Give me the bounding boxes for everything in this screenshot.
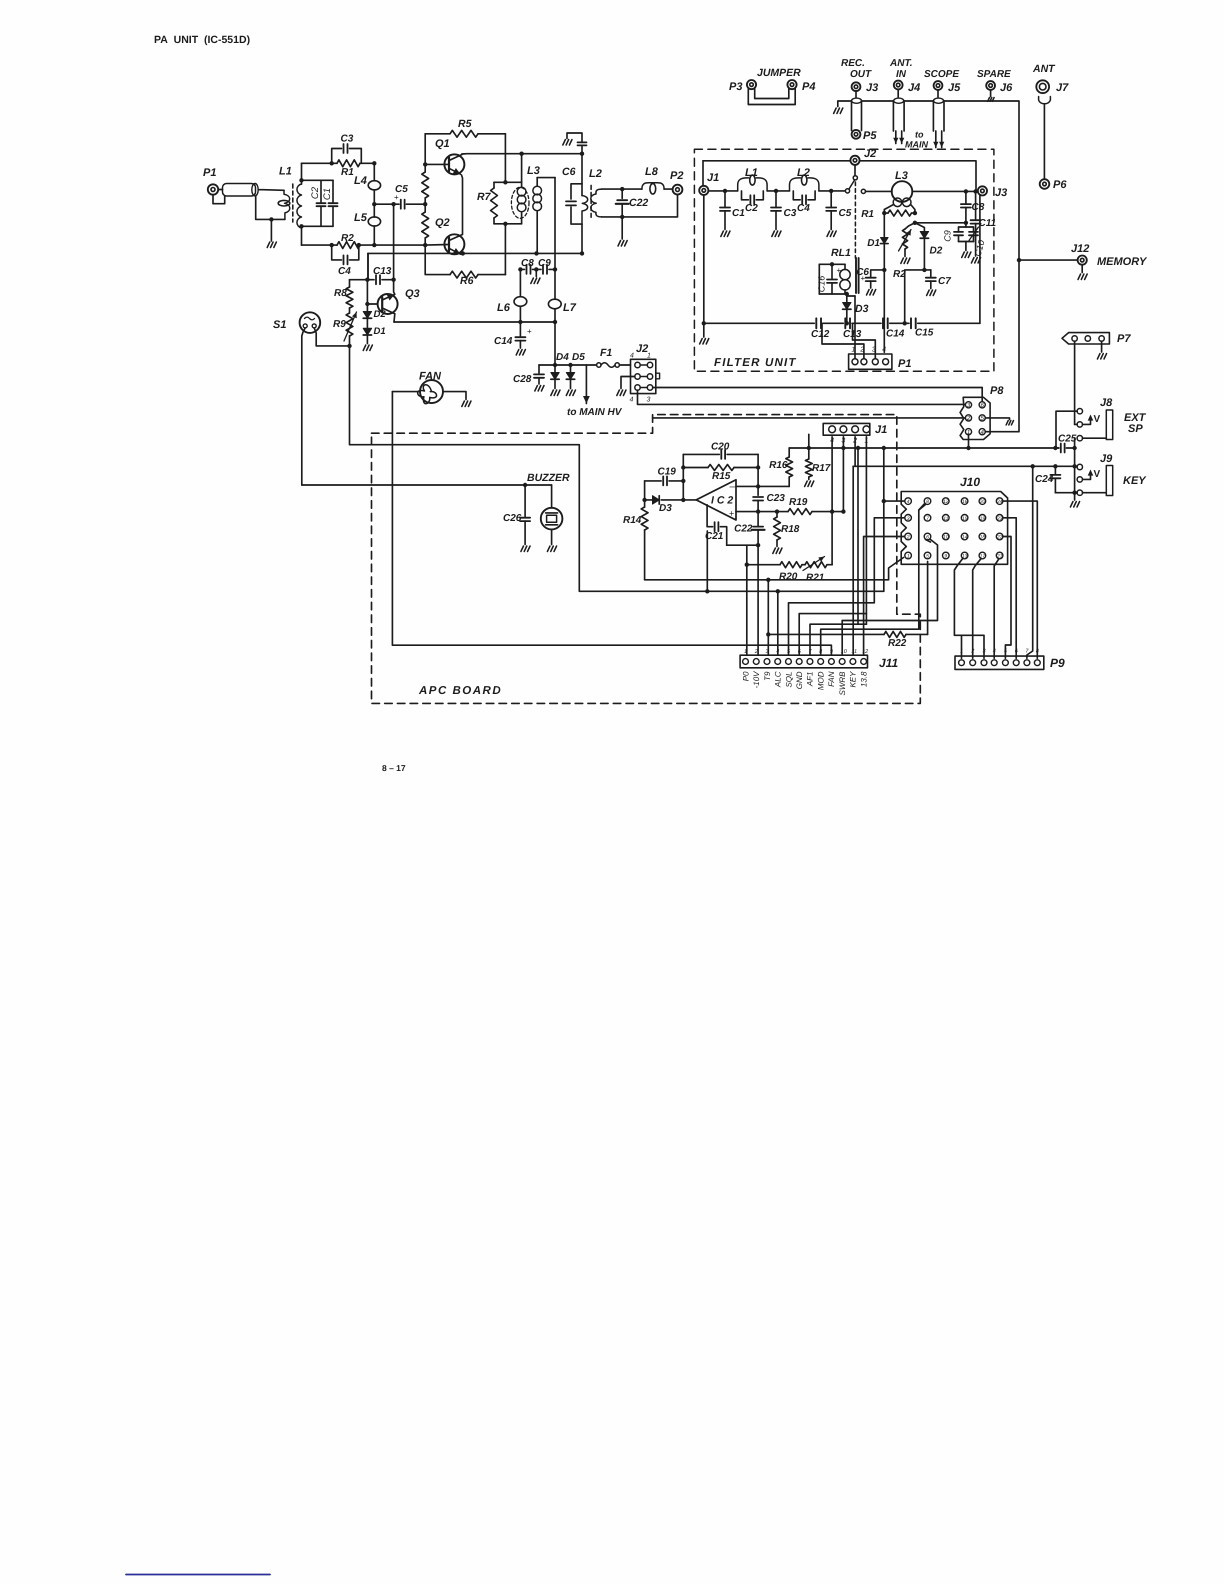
wire L3 coil left leg: [884, 205, 893, 214]
wire J10 pin22 to P9 pin5: [1003, 537, 1011, 659]
ground (D1): [363, 345, 372, 351]
node: R20 left / J11 pin1 riser: [745, 563, 749, 567]
transformer L1 core (dashed): [292, 184, 294, 222]
wire L7 bottom to D4/D5 line: [554, 322, 556, 365]
wire D2 leg to C7 bracket: [924, 269, 930, 271]
svg-text:R18: R18: [781, 524, 800, 535]
svg-text:J10: J10: [960, 475, 980, 489]
svg-text:FILTER UNIT: FILTER UNIT: [714, 357, 797, 369]
svg-text:J3: J3: [866, 82, 878, 94]
svg-text:J9: J9: [1100, 453, 1113, 465]
svg-text:IN: IN: [896, 69, 907, 80]
svg-text:REC.: REC.: [841, 58, 865, 69]
svg-text:P1: P1: [898, 358, 911, 370]
J9 sleeve: [1106, 466, 1112, 496]
svg-text:AF1: AF1: [806, 672, 815, 688]
svg-text:C1: C1: [732, 208, 745, 219]
wire J9 riser and ground: [1074, 448, 1076, 493]
wire J12 to branch: [1019, 259, 1078, 261]
svg-text:8: 8: [819, 649, 823, 655]
node: R9 bottom / S1: [347, 344, 351, 348]
svg-text:P6: P6: [1053, 179, 1067, 191]
wire L2 to switch contact: [819, 190, 845, 192]
wire L1 secondary top to C3/R1: [302, 162, 332, 164]
wire Q3 collector to C13 node: [394, 280, 395, 295]
J10 internal lead pin8: [919, 505, 926, 511]
node: T9 tee: [766, 578, 770, 582]
svg-text:D2: D2: [374, 309, 387, 320]
ground (C8/C9 mid): [535, 269, 537, 276]
wire L1-L2 link: [767, 190, 789, 192]
svg-text:C28: C28: [513, 374, 532, 385]
svg-text:V: V: [1094, 469, 1101, 480]
svg-text:R1: R1: [341, 167, 354, 178]
wire P7 pin1 down to J8: [1074, 341, 1076, 424]
node: R19 right end: [841, 509, 845, 513]
jumper wire P3-P4: [748, 88, 795, 105]
node: KEY rail / J9 riser: [1072, 464, 1076, 468]
node: L1 secondary top: [299, 178, 303, 182]
wire KEY rail: [853, 465, 1077, 467]
wire L2 secondary bottom loop to P2: [602, 195, 678, 217]
ground (R17): [805, 481, 814, 487]
wire S1/R9 sense line: [350, 346, 884, 591]
ground (C3 filter): [772, 231, 781, 237]
svg-text:R22: R22: [888, 638, 907, 649]
svg-text:C7: C7: [938, 276, 951, 287]
ground (J3 shield): [834, 108, 843, 114]
svg-text:ANT: ANT: [1032, 63, 1056, 75]
resistor (Q2 bias, unlabeled): [422, 212, 429, 238]
wire fan right lead to ground: [443, 392, 466, 400]
svg-text:2: 2: [906, 535, 910, 541]
node: C9 right / L7 line: [553, 267, 557, 271]
wire J10 pin21 to P9 pin4: [994, 559, 999, 659]
wire C21/C22 bottom link: [727, 544, 758, 546]
J8 switch arm: [1083, 418, 1091, 425]
node: rail / C11: [580, 251, 584, 255]
svg-text:F1: F1: [600, 347, 612, 359]
J8 sleeve: [1106, 410, 1112, 440]
wire shield link line: [862, 100, 894, 102]
wire T9 drop to J11 pin3: [767, 580, 769, 655]
capacitor (collector bypass, top): [581, 145, 583, 153]
wire P9 pin1 drop: [961, 635, 963, 658]
svg-text:L4: L4: [354, 175, 367, 187]
wire J11 pin10 stair to J10 pin6: [842, 540, 937, 656]
svg-text:8: 8: [1036, 649, 1040, 655]
wire C21 drop: [706, 531, 708, 591]
wire P8 pin2 line from APC: [653, 417, 966, 419]
switch arm from J2: [854, 165, 856, 176]
node: R15 left: [681, 465, 685, 469]
transformer L1 secondary winding: [301, 163, 303, 184]
ground (input): [270, 219, 272, 241]
svg-text:to MAIN HV: to MAIN HV: [567, 407, 623, 418]
svg-text:16: 16: [962, 499, 968, 505]
wire D4/D5 feed line: [539, 364, 596, 366]
wire buzzer feed line: [302, 484, 552, 486]
svg-text:V: V: [1094, 414, 1101, 425]
switch contact (right): [861, 189, 865, 193]
svg-text:L1: L1: [279, 166, 292, 178]
relay linkage (dashed): [854, 182, 856, 258]
wire feedback stack riser: [682, 454, 684, 500]
wire L2 primary to emitter rail: [581, 224, 583, 253]
svg-text:20: 20: [979, 499, 986, 505]
ground (filter bus): [700, 339, 709, 345]
ground (J2): [617, 390, 626, 396]
svg-text:12: 12: [862, 649, 868, 655]
ground (fan): [462, 401, 471, 407]
wire L3 coil right leg: [911, 205, 915, 214]
svg-text:C9: C9: [538, 258, 551, 269]
wire J11 pin8 stair to J10 pin8: [821, 504, 925, 655]
wire L3 secondary top riser: [554, 178, 556, 270]
svg-text:ALC: ALC: [774, 671, 783, 688]
wire J10 pin23 to P9 pin6: [1003, 518, 1016, 659]
svg-text:R20: R20: [779, 572, 798, 583]
svg-text:L2: L2: [589, 168, 602, 180]
svg-text:to: to: [915, 130, 924, 140]
svg-text:C22: C22: [629, 197, 648, 209]
node: J11 pin4 on sense line: [776, 589, 780, 593]
wire L8 to P2: [664, 188, 673, 190]
svg-text:C4: C4: [338, 266, 351, 277]
wire KEY branch to P9 pin7: [1027, 466, 1033, 658]
svg-text:4: 4: [907, 499, 910, 505]
svg-text:5: 5: [926, 554, 929, 560]
svg-text:23: 23: [996, 516, 1003, 522]
wire J1 row line: [708, 190, 737, 192]
svg-text:12: 12: [943, 499, 949, 505]
coax J4 to MAIN: [897, 89, 899, 97]
wire output node line (D3 to IC2): [661, 499, 696, 501]
svg-text:+: +: [729, 509, 734, 519]
node: KEY/P9 branch: [1031, 464, 1035, 468]
node: P8 pin1 on rail: [966, 446, 970, 450]
node: pin7 riser on rail: [856, 446, 860, 450]
node: +input / C23: [756, 509, 760, 513]
svg-text:R5: R5: [458, 118, 472, 130]
wire Q3 emitter line: [394, 321, 555, 323]
wire R14 line to J10 pin1: [645, 558, 904, 580]
node: L4/L5 junction: [372, 202, 376, 206]
node: L3 secondary bottom on rail: [534, 251, 538, 255]
ground (C5 filter): [827, 231, 836, 237]
svg-text:APC BOARD: APC BOARD: [418, 685, 502, 697]
node: feedback / -input: [756, 484, 760, 488]
node: D5 top: [568, 363, 572, 367]
svg-text:SQL: SQL: [784, 672, 793, 688]
node: C13 left: [365, 278, 369, 282]
node: J10 pin4 exit: [882, 499, 886, 503]
node: C8 top tap: [964, 189, 968, 193]
wire Q1 emitter to Q2 collector: [462, 175, 463, 235]
node: C8/C9 midpoint: [534, 267, 538, 271]
node: D2 bottom: [922, 268, 926, 272]
wire C5 node down to C13: [393, 204, 395, 280]
svg-text:C26: C26: [503, 513, 522, 524]
svg-text:C8: C8: [972, 202, 985, 213]
svg-text:R7: R7: [477, 191, 492, 203]
svg-text:KEY: KEY: [849, 671, 858, 688]
APC BOARD dashed enclosure: [372, 415, 921, 704]
wire R22 to J10 pin5: [927, 562, 929, 635]
svg-text:D1: D1: [374, 326, 386, 337]
svg-text:T9: T9: [763, 671, 772, 681]
svg-text:19: 19: [980, 516, 986, 522]
svg-text:C12: C12: [811, 329, 830, 340]
transformer L1 primary winding: [284, 190, 290, 219]
wire P8 pin5 to ground: [985, 418, 1009, 420]
svg-text:3: 3: [647, 397, 651, 404]
ground (R18): [773, 548, 782, 554]
wire J11 pin2 riser (-10V): [757, 545, 759, 655]
svg-text:-10V: -10V: [752, 671, 761, 689]
wire J2 pin4 to P8 pin3: [638, 390, 966, 404]
svg-text:P4: P4: [802, 81, 815, 93]
wire rail left-end to C13 node: [367, 253, 369, 279]
svg-text:C2: C2: [310, 186, 321, 199]
svg-text:C3: C3: [784, 208, 797, 219]
wire J7 to P6: [1043, 105, 1045, 180]
wire R5 right riser to L3 primary: [504, 134, 506, 183]
node: C13 right: [391, 278, 395, 282]
svg-text:FAN: FAN: [827, 671, 836, 687]
ground (buzzer): [547, 546, 556, 552]
node: D4 top: [553, 363, 557, 367]
ground (D5): [566, 390, 575, 396]
node: C8 bottom / C9 bracket: [964, 221, 968, 225]
node: Q2 base: [423, 243, 427, 247]
svg-text:JUMPER: JUMPER: [757, 67, 801, 79]
svg-text:S1: S1: [273, 319, 286, 331]
node: C5 tap: [829, 189, 833, 193]
svg-text:Q1: Q1: [435, 138, 450, 150]
transformer L2 primary: [581, 184, 583, 196]
svg-text:P5: P5: [863, 130, 877, 142]
node: C22 bottom: [620, 215, 624, 219]
wire rail down to J1 (filter): [702, 161, 704, 186]
wire J1 pin1 drop to J11 pin7 stair: [865, 437, 867, 624]
svg-text:J12: J12: [1071, 243, 1089, 255]
wire D1 leg down to P1 pin4: [883, 270, 885, 352]
wire RL1 left bracket: [818, 264, 820, 294]
wire J11 pin11 riser (KEY): [852, 466, 854, 655]
node: rail / C6-L2 branch: [580, 152, 584, 156]
svg-text:R8: R8: [334, 288, 347, 299]
svg-text:L3: L3: [895, 170, 908, 182]
wire 448 rail (R16-P8-C25): [789, 447, 1059, 449]
node: D1 bottom / C6 tap: [882, 268, 886, 272]
node: C19/D3/R14 node: [642, 498, 646, 502]
switch contact (left): [845, 189, 849, 193]
svg-text:P0: P0: [741, 671, 750, 681]
node: C3 tap: [774, 189, 778, 193]
svg-text:BUZZER: BUZZER: [527, 472, 570, 484]
node: +input / R18: [775, 509, 779, 513]
node: feedback stack tap: [681, 498, 685, 502]
wire Q2 emitter rail: [368, 252, 582, 254]
wire fan left lead: [392, 391, 420, 393]
node: J12 branch: [1017, 258, 1021, 262]
svg-text:14: 14: [962, 535, 968, 541]
node: KEY rail / C24: [1053, 464, 1057, 468]
node: C21 drop on sense line: [705, 589, 709, 593]
node: R1 right leg: [913, 221, 917, 225]
svg-text:J8: J8: [1100, 397, 1113, 409]
J7 pigtail loop: [1039, 97, 1051, 104]
wire IC2 non-inverting input line: [736, 511, 777, 513]
svg-text:MOD: MOD: [816, 671, 825, 690]
svg-text:4: 4: [630, 397, 634, 404]
wire C9/C10 bottom to ground: [959, 241, 974, 243]
svg-text:1: 1: [960, 649, 963, 655]
node: C1 tap: [723, 189, 727, 193]
svg-text:J1: J1: [875, 424, 887, 436]
node: J10 pin4 riser on rail: [882, 446, 886, 450]
svg-text:R14: R14: [623, 515, 642, 526]
svg-text:P1: P1: [203, 167, 216, 179]
wire J10 pin17 to P9 pin2: [973, 559, 981, 659]
svg-text:C6: C6: [562, 166, 576, 178]
svg-text:J5: J5: [948, 82, 961, 94]
svg-text:C20: C20: [711, 442, 730, 453]
svg-text:GND: GND: [795, 671, 804, 689]
svg-text:18: 18: [980, 535, 986, 541]
svg-text:R15: R15: [712, 471, 731, 482]
ground (J9): [1070, 502, 1079, 508]
svg-text:I C 2: I C 2: [711, 495, 733, 507]
wire filter top rail: [703, 160, 850, 162]
svg-text:SP: SP: [1128, 423, 1143, 435]
relay RL1 armature: [855, 258, 857, 293]
svg-text:R19: R19: [789, 497, 808, 508]
FILTER UNIT dashed enclosure: [694, 149, 994, 371]
node: L6 bottom: [518, 320, 522, 324]
wire C25 right up to J8 sleeve circle: [1074, 438, 1076, 448]
svg-text:MAIN: MAIN: [905, 140, 928, 150]
node: C8 left / L6 top: [518, 267, 522, 271]
node: rail / L3 primary riser: [519, 152, 523, 156]
wire relay common to P1 pin1: [854, 296, 856, 359]
svg-text:P7: P7: [1117, 333, 1131, 345]
svg-text:SPARE: SPARE: [977, 69, 1011, 80]
node: C7 riser on bus: [903, 321, 907, 325]
svg-text:SWRB: SWRB: [838, 671, 847, 696]
svg-text:J4: J4: [908, 82, 920, 94]
ground (C14): [516, 350, 525, 356]
wire S1 left leg down to buzzer line: [302, 328, 305, 485]
svg-text:2: 2: [966, 415, 971, 422]
node: D3 to bus: [845, 321, 849, 325]
svg-text:C22: C22: [734, 524, 753, 535]
svg-text:PA UNIT (IC-551D): PA UNIT (IC-551D): [154, 34, 250, 46]
wire L1 secondary bottom to R2/C4: [302, 244, 332, 246]
wire J11 pin7 stair: [810, 624, 866, 655]
svg-text:D1: D1: [867, 238, 880, 249]
svg-text:C23: C23: [767, 493, 786, 504]
wire J11 pin12 riser to J10 pin2: [864, 537, 905, 656]
svg-text:4: 4: [882, 347, 886, 354]
wire P8 pin1 down to C25 rail: [968, 435, 970, 448]
wire SCOPE branch down to P8 pin4: [944, 101, 1019, 260]
svg-text:3: 3: [983, 649, 987, 655]
node: R16/R17 top: [807, 446, 811, 450]
svg-text:2: 2: [970, 649, 974, 655]
svg-text:D5: D5: [572, 352, 585, 363]
wire pin7 riser upper: [857, 448, 859, 624]
svg-text:4: 4: [776, 649, 779, 655]
relay RL1 coil: [819, 263, 845, 265]
node: C5 / bias divider: [423, 202, 427, 206]
svg-text:R9: R9: [333, 319, 346, 330]
svg-text:D2: D2: [930, 246, 943, 257]
wire R1 leg to C9/C10: [915, 222, 966, 224]
svg-text:C14: C14: [494, 336, 513, 347]
svg-text:L7: L7: [563, 302, 577, 314]
svg-text:2: 2: [754, 649, 758, 655]
node: C25 right / J9 riser: [1072, 446, 1076, 450]
node: L1 secondary bottom: [299, 224, 303, 228]
wire coax shield to ground bus: [256, 196, 285, 219]
svg-text:1: 1: [647, 353, 651, 360]
svg-text:6: 6: [798, 649, 802, 655]
svg-text:P3: P3: [729, 81, 742, 93]
svg-text:L8: L8: [645, 166, 659, 178]
transformer L2 secondary: [591, 189, 602, 217]
ground (D4): [551, 390, 560, 396]
svg-text:C2: C2: [745, 203, 758, 214]
node: R19 / J1 pin4 riser: [830, 509, 834, 513]
ground (C26): [521, 546, 530, 552]
svg-text:4: 4: [630, 353, 634, 360]
wire P7 pin3 to ground: [1101, 341, 1103, 352]
svg-text:+: +: [394, 193, 399, 202]
node: J1 pin3 on rail: [841, 446, 845, 450]
svg-text:C8: C8: [521, 258, 534, 269]
svg-text:9: 9: [944, 554, 947, 560]
node: Q2 emitter on rail: [461, 251, 465, 255]
wire S1 right leg to R9 node: [314, 328, 349, 346]
svg-text:24: 24: [996, 499, 1003, 505]
ground (J12): [1081, 265, 1083, 273]
svg-text:L5: L5: [354, 212, 368, 224]
wire J10 pin4 lead: [884, 500, 905, 502]
wire sense line riser to J10 pin4: [883, 448, 885, 591]
svg-text:SCOPE: SCOPE: [924, 69, 959, 80]
node: Q1 base: [423, 162, 427, 166]
wire to MAIN HV arrow: [585, 365, 587, 399]
svg-text:10: 10: [943, 535, 949, 541]
svg-text:MEMORY: MEMORY: [1097, 256, 1148, 268]
svg-text:ANT.: ANT.: [889, 58, 913, 69]
svg-text:1: 1: [744, 649, 747, 655]
wire FAN line to J11 pin9: [392, 392, 831, 656]
svg-text:C3: C3: [341, 134, 354, 145]
wire bus to P1 pin3: [853, 323, 876, 358]
wire R6 right riser to L3 primary bottom: [504, 224, 506, 275]
ground (C7): [927, 290, 936, 296]
coax J5: [937, 90, 939, 97]
svg-text:22: 22: [996, 535, 1003, 541]
svg-text:P8: P8: [990, 385, 1004, 397]
wire IC2 inverting input line: [736, 485, 789, 487]
node: R22 line start: [766, 632, 770, 636]
coax to P5: [855, 91, 857, 97]
wire J3 shield to ground: [838, 101, 852, 107]
